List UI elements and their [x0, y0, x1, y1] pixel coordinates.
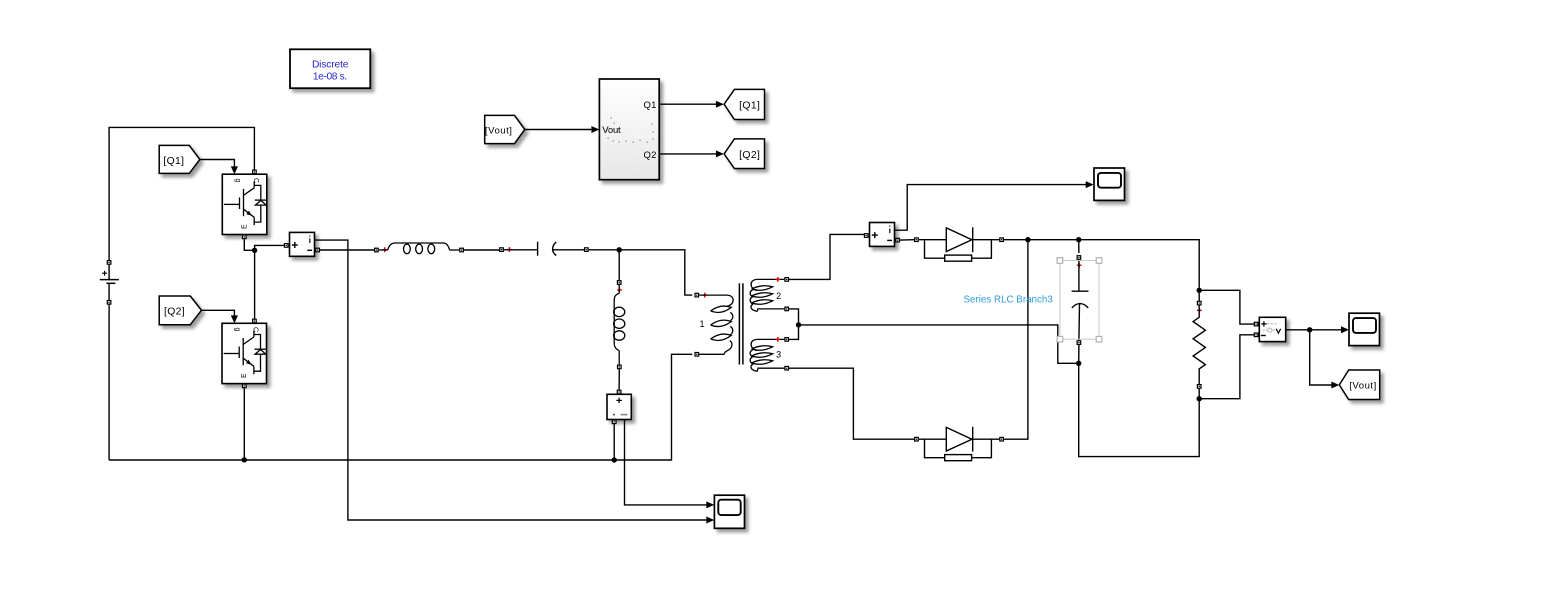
svg-text:C: C — [252, 327, 259, 332]
current measurement CM1 — [284, 232, 320, 256]
svg-text:Series RLC Branch3: Series RLC Branch3 — [964, 295, 1054, 306]
wire winding3 minus to diode2 — [789, 368, 914, 439]
wire cap branch bottom down to right bus — [1079, 363, 1200, 456]
wire Lm to voltage measurement VM1 — [618, 369, 620, 390]
svg-text:[Vout]: [Vout] — [1349, 381, 1377, 392]
wire diode2 output up to top rail — [1004, 240, 1028, 440]
scope2 (two inputs, bottom middle) — [714, 495, 744, 528]
svg-text:E: E — [241, 224, 248, 229]
node A junction dot — [252, 248, 257, 253]
wire winding3 plus to center tap node C — [789, 325, 799, 340]
wire C branch to transformer primary with node B — [589, 250, 693, 295]
wire node A to current measurement 1 input — [255, 245, 285, 250]
svg-text:3: 3 — [776, 349, 781, 359]
node C junction dot — [796, 322, 801, 327]
powergui block "Discrete 1e-08 s." — [290, 49, 370, 88]
wire VM2 output down to goto [Vout] — [1310, 330, 1340, 389]
svg-text:Discrete: Discrete — [312, 59, 349, 70]
wire VM2 output to scope3 — [1286, 326, 1349, 333]
wire CM1 minus to series L branch — [320, 249, 374, 251]
wire CM2 i output to scope4 — [895, 181, 1094, 230]
wire IGBT2 emitter to bottom bus — [243, 388, 245, 460]
wire VM1 minus to bottom bus — [613, 424, 615, 460]
svg-text:[Q1]: [Q1] — [163, 156, 184, 167]
wire L branch to C branch — [464, 249, 500, 251]
linear transformer: primary winding 1 — [694, 293, 733, 357]
magnetizing inductance Lm branch (vertical) — [614, 280, 625, 369]
scope4 (top right) — [1094, 168, 1125, 200]
wire CM1 i output to scope2 input2 — [315, 240, 715, 523]
controller subsystem block — [599, 79, 659, 180]
Goto tag [Q2] — [724, 139, 764, 169]
DC voltage source battery — [100, 260, 119, 460]
svg-text:[Q1]: [Q1] — [739, 100, 760, 111]
IGBT/Diode block 1 — [222, 170, 266, 240]
junction dot VM2 output — [1307, 327, 1312, 332]
svg-text:g: g — [234, 328, 241, 332]
IGBT/Diode block 2 — [222, 319, 267, 389]
series RLC branch3 output filter capacitor (selected) — [1072, 240, 1089, 364]
wire resistor bottom to VM2 minus — [1199, 335, 1254, 399]
wire winding2 minus to center tap node C — [789, 309, 799, 325]
junction dot cap branch bottom — [1076, 361, 1081, 366]
junction dot resistor top — [1197, 288, 1202, 293]
transformer secondary winding 3 — [750, 337, 789, 371]
junction dot rail/diode2 riser — [1025, 237, 1030, 242]
From tag [Q1] — [159, 145, 200, 173]
load resistor branch — [1193, 290, 1205, 398]
wire From[Vout] to controller subsystem — [525, 126, 600, 133]
svg-text:C: C — [252, 178, 259, 183]
From tag [Q2] — [159, 296, 201, 325]
series RLC branch C (resonant capacitor) — [499, 242, 589, 256]
svg-text:[Q2]: [Q2] — [739, 150, 760, 161]
wire VM1 v output to scope2 input1 — [625, 420, 715, 509]
Goto tag [Vout] — [1339, 370, 1379, 400]
svg-text:Vout: Vout — [602, 125, 621, 136]
svg-text:Q2: Q2 — [644, 150, 657, 161]
wire From[Q1] to IGBT1 gate with arrow — [200, 160, 238, 175]
svg-text:Q1: Q1 — [644, 100, 657, 111]
wire subsystem Q1 to goto [Q1] — [659, 101, 724, 108]
wire CM2 minus to diode1 — [900, 239, 914, 241]
svg-text:[Vout]: [Vout] — [485, 126, 513, 137]
wire winding2 plus to CM2 input — [789, 234, 865, 279]
svg-text:[Q2]: [Q2] — [164, 307, 185, 318]
node B junction dot — [617, 247, 622, 252]
wire top rail battery to IGBT1 collector — [109, 127, 254, 260]
transformer secondary winding 2 — [750, 277, 789, 311]
wire node A to IGBT2 collector — [254, 250, 256, 318]
junction dot rail/cap branch — [1076, 237, 1081, 242]
center tap wire node C to cap branch bottom — [799, 325, 1079, 363]
selection handles of series RLC branch3 — [1057, 258, 1102, 342]
junction dot bus/IGBT2 emitter — [242, 457, 247, 462]
voltage measurement VM2 — [1254, 317, 1286, 341]
bottom bus wire — [109, 354, 692, 460]
wire IGBT1 emitter to node A — [244, 239, 254, 250]
Goto tag [Q1] — [724, 89, 764, 119]
svg-text:1: 1 — [699, 319, 704, 329]
diode D1 with snubber — [914, 227, 1004, 261]
junction dot bus/VM1 — [612, 457, 617, 462]
voltage measurement VM1 (rotated) — [607, 390, 631, 425]
wire From[Q2] to IGBT2 gate with arrow — [201, 310, 238, 323]
svg-text:2: 2 — [776, 291, 781, 301]
diode D2 with snubber — [914, 427, 1004, 461]
series RLC branch L (resonant inductor) — [374, 243, 464, 254]
wire resistor top to VM2 plus — [1199, 290, 1254, 324]
wire subsystem Q2 to goto [Q2] — [659, 150, 724, 157]
svg-text:g: g — [234, 178, 241, 182]
svg-text:1e-08 s.: 1e-08 s. — [313, 71, 347, 82]
wire node B down to Lm branch — [618, 250, 620, 280]
svg-text:E: E — [241, 373, 248, 378]
top rail diode1 to load resistor — [1004, 240, 1199, 291]
scope3 (output voltage) — [1349, 313, 1380, 345]
transformer core — [739, 283, 743, 364]
current measurement CM2 — [864, 223, 900, 247]
From tag [Vout] (top) — [485, 115, 525, 143]
junction dot resistor bottom — [1197, 396, 1202, 401]
